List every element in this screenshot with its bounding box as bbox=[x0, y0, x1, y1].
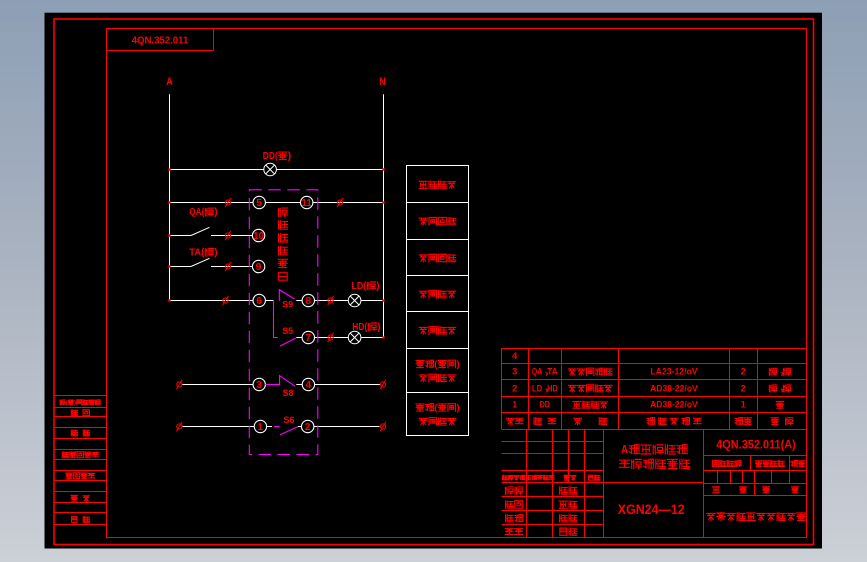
terminal 4 bbox=[302, 378, 314, 391]
node A bbox=[166, 76, 172, 88]
svg-text:DD: DD bbox=[540, 400, 551, 410]
wire to terminal 3 bbox=[183, 384, 254, 386]
junction N/S5 row bbox=[382, 336, 384, 338]
labels 共页 第页 bbox=[713, 487, 799, 493]
switch S8 blade bbox=[265, 376, 295, 387]
svg-text:AD38-22/oV: AD38-22/oV bbox=[650, 400, 698, 410]
drawing title A型电动机构二次控制原理 bbox=[619, 442, 689, 468]
label 遥控(备用)分闸指示 bbox=[416, 359, 460, 382]
svg-text:6: 6 bbox=[256, 296, 262, 307]
junction A/QA bbox=[168, 234, 170, 236]
parts row 3: QA TA pushbuttons bbox=[512, 367, 791, 377]
terminal 1 bbox=[254, 420, 266, 433]
svg-text:S9: S9 bbox=[282, 300, 293, 311]
svg-text:10: 10 bbox=[253, 231, 264, 242]
svg-text:8: 8 bbox=[305, 296, 311, 307]
label 线路板焊装口 (vertical) bbox=[278, 208, 287, 280]
svg-text:AD38-22/oV: AD38-22/oV bbox=[650, 383, 698, 393]
terminal 2 bbox=[302, 420, 314, 433]
terminal 9 bbox=[252, 260, 264, 273]
switch TA (red button) bbox=[170, 258, 253, 266]
terminal 7 bbox=[302, 331, 314, 344]
svg-text:): ) bbox=[457, 359, 460, 370]
svg-text:3: 3 bbox=[256, 380, 262, 391]
wire S5 to terminal 7 bbox=[296, 337, 302, 339]
switch S5 blade bbox=[280, 338, 296, 346]
terminal 6 bbox=[253, 294, 265, 307]
svg-text:): ) bbox=[214, 207, 217, 218]
terminal 11 bbox=[301, 196, 313, 209]
parts row 1: DD power indicator bbox=[512, 400, 783, 410]
switch QA (green button) bbox=[170, 227, 253, 235]
label DD(黄) bbox=[263, 151, 291, 162]
wire S9 to terminal 8 bbox=[296, 300, 302, 302]
svg-text:3: 3 bbox=[512, 367, 517, 377]
wire lamp HD to N bbox=[361, 337, 384, 339]
left margin accessory table bbox=[54, 396, 107, 525]
svg-text:1: 1 bbox=[512, 400, 517, 410]
svg-text:2: 2 bbox=[741, 367, 746, 377]
connector plug S8 left bbox=[176, 380, 182, 390]
svg-text:LA23-12/oV: LA23-12/oV bbox=[650, 367, 697, 377]
junction N/row6 bbox=[382, 299, 384, 301]
junction A/DD bbox=[168, 168, 170, 170]
model XGN24-12 bbox=[618, 501, 685, 517]
lamp DD (power indicator) bbox=[264, 163, 277, 176]
wire terminal 4 to right plug bbox=[314, 384, 379, 386]
parts row 2: LD HD indicators bbox=[512, 383, 791, 393]
svg-text:DD(: DD( bbox=[263, 151, 279, 162]
svg-text:2: 2 bbox=[512, 383, 517, 393]
svg-text:): ) bbox=[377, 322, 380, 333]
parts row 4 (spare) bbox=[512, 351, 517, 361]
wire terminal 2 to right plug bbox=[314, 426, 380, 428]
junction N/row5 bbox=[382, 201, 384, 203]
label S9 bbox=[282, 300, 293, 311]
wire S6 to terminal 2 bbox=[298, 426, 302, 428]
wire S8 to terminal 4 bbox=[296, 384, 302, 386]
wire A to terminal 6 bbox=[170, 300, 254, 302]
lamp HD (close indicator) bbox=[348, 331, 361, 344]
wire terminal 8 to lamp LD bbox=[314, 300, 348, 302]
svg-text:): ) bbox=[214, 247, 217, 258]
junction A/row5 bbox=[168, 201, 170, 203]
wire terminal 6 stub bbox=[265, 300, 273, 302]
parts header row bbox=[506, 418, 793, 425]
svg-text:1: 1 bbox=[258, 422, 264, 433]
label HD(红) bbox=[352, 322, 380, 333]
svg-text:TA(: TA( bbox=[189, 247, 205, 258]
label S6 bbox=[284, 415, 295, 426]
connector plug row6 bbox=[223, 296, 229, 306]
svg-text:4: 4 bbox=[512, 351, 517, 361]
node N bbox=[379, 76, 385, 88]
switch S9/S5 common bar bbox=[274, 301, 278, 338]
wire terminal 11 to N bbox=[313, 202, 384, 204]
wire to terminal 1 bbox=[183, 426, 255, 428]
svg-text:HD: HD bbox=[547, 383, 558, 393]
svg-text:1: 1 bbox=[741, 400, 746, 410]
svg-text:7: 7 bbox=[305, 333, 311, 344]
label 分闸指示 bbox=[419, 290, 455, 298]
revision header tiny labels bbox=[503, 475, 600, 480]
svg-text:S5: S5 bbox=[282, 326, 294, 337]
svg-text:): ) bbox=[457, 403, 460, 414]
svg-text:4QN.352.011: 4QN.352.011 bbox=[132, 36, 189, 47]
connector plug S6 left bbox=[176, 422, 182, 432]
svg-text:): ) bbox=[74, 399, 76, 406]
switch S9 blade bbox=[279, 290, 294, 301]
svg-text:4: 4 bbox=[306, 380, 312, 391]
svg-text:11: 11 bbox=[302, 198, 313, 209]
svg-text:2: 2 bbox=[741, 383, 746, 393]
connector plug S8 right bbox=[380, 380, 386, 390]
connector plug S5 row bbox=[328, 333, 334, 343]
svg-text:TA: TA bbox=[547, 367, 558, 377]
lamp LD (open indicator) bbox=[348, 294, 361, 307]
switch S6 blade bbox=[274, 427, 298, 435]
PCB module outline (dashed) bbox=[249, 190, 317, 455]
svg-text:A: A bbox=[166, 76, 172, 88]
doc number 4QN.352.011(A) bbox=[716, 440, 796, 452]
label 合闸指示 bbox=[419, 327, 455, 335]
svg-text:QA(: QA( bbox=[189, 207, 205, 218]
svg-text:S8: S8 bbox=[283, 388, 294, 399]
svg-text:LD(: LD( bbox=[351, 281, 367, 292]
label 分闸回路 bbox=[419, 254, 455, 262]
label LD(绿) bbox=[351, 281, 379, 292]
svg-text:): ) bbox=[376, 281, 379, 292]
company 广州启能开关有限公司 bbox=[707, 512, 805, 520]
svg-text:A: A bbox=[621, 442, 628, 456]
svg-text:XGN24—12: XGN24—12 bbox=[618, 501, 685, 517]
svg-text:LD: LD bbox=[532, 383, 543, 393]
connector plug QA bbox=[225, 231, 231, 241]
wire N bus bbox=[383, 94, 385, 337]
wire terminal 5 to 11 bbox=[265, 202, 301, 204]
label QA(绿) bbox=[189, 207, 217, 218]
label TA(红) bbox=[189, 247, 217, 258]
wire A to terminal 5 bbox=[170, 202, 254, 204]
svg-text:HD(: HD( bbox=[352, 322, 368, 333]
labels 图样标记 重量比例 数量 bbox=[712, 461, 804, 467]
function label table bbox=[407, 166, 469, 436]
junction A/TA bbox=[168, 265, 170, 267]
svg-text:2: 2 bbox=[305, 422, 311, 433]
svg-text:N: N bbox=[379, 76, 385, 88]
label 遥控(备用)合闸指示 bbox=[416, 403, 460, 426]
signature rows labels bbox=[505, 487, 576, 535]
svg-text:5: 5 bbox=[256, 198, 262, 209]
accessory labels bbox=[60, 399, 100, 522]
terminal 8 bbox=[302, 294, 314, 307]
junction A/row6 bbox=[168, 299, 170, 301]
terminal 5 bbox=[253, 196, 265, 209]
connector plug TA bbox=[225, 262, 231, 272]
label 合闸回路 bbox=[419, 217, 455, 225]
junction N/DD bbox=[382, 168, 384, 170]
connector plug row5 right bbox=[337, 198, 343, 208]
wire A bus bbox=[169, 94, 171, 300]
document number box 4QN.352.011 bbox=[107, 29, 214, 51]
svg-text:): ) bbox=[288, 151, 291, 162]
label 电源指示 bbox=[419, 181, 455, 188]
parts list table bbox=[502, 349, 807, 430]
wire DD row bbox=[170, 169, 384, 171]
svg-text:9: 9 bbox=[256, 262, 262, 273]
connector plug row5 bbox=[225, 198, 231, 208]
title block main area bbox=[502, 430, 807, 538]
wire lamp LD to N bbox=[361, 300, 384, 302]
terminal 10 bbox=[252, 229, 264, 242]
connector plug row6 right bbox=[328, 296, 334, 306]
svg-text:4QN.352.011(A): 4QN.352.011(A) bbox=[716, 440, 796, 452]
wire terminal 1 stub bbox=[266, 426, 272, 428]
wire terminal 7 to lamp HD bbox=[314, 337, 348, 339]
terminal 3 bbox=[253, 378, 265, 391]
label S5 bbox=[282, 326, 294, 337]
svg-text:S6: S6 bbox=[284, 415, 295, 426]
connector plug S6 right bbox=[380, 422, 386, 432]
label S8 bbox=[283, 388, 294, 399]
svg-text:QA: QA bbox=[532, 367, 543, 377]
